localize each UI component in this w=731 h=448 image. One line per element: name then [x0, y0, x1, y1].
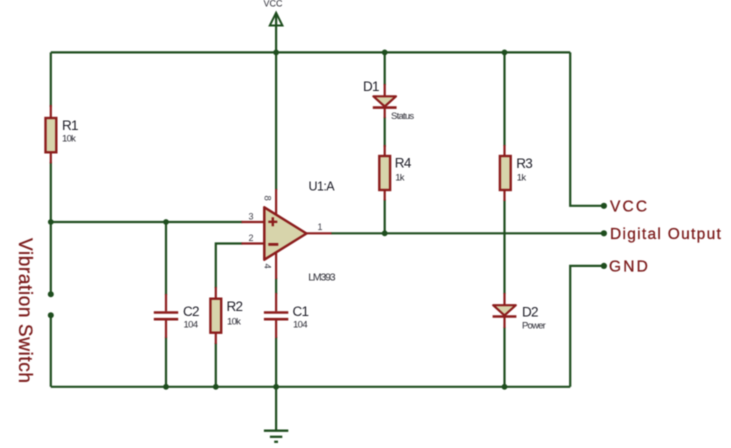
- svg-text:VCC: VCC: [610, 198, 649, 215]
- pin 1 stub: [307, 232, 332, 234]
- svg-text:1k: 1k: [517, 173, 527, 184]
- wire C2 branch vertical: [165, 222, 167, 387]
- wire right vertical to VCC terminal: [570, 52, 604, 205]
- svg-text:R3: R3: [516, 156, 532, 171]
- resistor R3: [500, 145, 511, 201]
- resistor R1: [46, 105, 57, 164]
- node junction pin3 row / C2 branch: [163, 219, 169, 225]
- capacitor C1: [264, 293, 288, 338]
- svg-text:LM393: LM393: [308, 272, 335, 284]
- capacitor C2: [154, 294, 178, 338]
- svg-text:GND: GND: [609, 258, 650, 275]
- node Digital Output terminal dot: [601, 230, 607, 236]
- svg-text:104: 104: [184, 320, 198, 331]
- node vibration switch bottom terminal: [48, 312, 54, 318]
- node junction top rail / VCC stem: [273, 50, 279, 56]
- svg-text:8: 8: [262, 196, 273, 201]
- svg-text:Power: Power: [522, 321, 546, 332]
- diode D2 Power LED: [493, 293, 517, 328]
- svg-text:104: 104: [293, 320, 307, 331]
- svg-text:3: 3: [249, 212, 254, 222]
- ground symbol: [264, 431, 288, 442]
- svg-text:R4: R4: [395, 156, 412, 171]
- svg-text:Digital Output: Digital Output: [610, 226, 722, 243]
- svg-text:R1: R1: [62, 118, 78, 133]
- pin 3 stub: [242, 221, 265, 223]
- resistor R4: [379, 145, 390, 201]
- wire right vertical to GND terminal: [570, 266, 604, 387]
- svg-text:VCC: VCC: [263, 0, 283, 9]
- node VCC terminal dot: [601, 203, 607, 209]
- node junction output row / R4 branch: [382, 230, 388, 236]
- svg-text:D1: D1: [363, 79, 379, 94]
- svg-text:1k: 1k: [395, 173, 405, 184]
- svg-text:4: 4: [262, 264, 273, 269]
- svg-text:C2: C2: [183, 304, 199, 319]
- svg-text:1: 1: [318, 222, 323, 232]
- svg-text:U1:A: U1:A: [309, 180, 336, 194]
- node GND terminal dot: [601, 263, 607, 269]
- wire D1/R4 branch vertical: [384, 52, 386, 233]
- node junction bottom rail / C1 and ground: [273, 384, 279, 390]
- diode D1 Status LED: [373, 84, 397, 118]
- minus symbol: [268, 243, 278, 246]
- wire left vertical upper (top rail to R1): [50, 52, 52, 107]
- wire bottom rail GND net: [51, 386, 570, 388]
- node junction top rail / D1 branch: [382, 50, 388, 56]
- node junction bottom rail / R2: [213, 384, 219, 390]
- wire inverting input row (pin 2) with corner to R2: [216, 244, 243, 387]
- wire op-amp pin 4 to C1 to bottom rail to ground: [275, 278, 277, 431]
- node vibration switch top terminal: [48, 291, 54, 297]
- node junction bottom rail / C2: [163, 384, 169, 390]
- svg-text:R2: R2: [227, 299, 243, 314]
- pin 8 stub: [275, 189, 277, 216]
- svg-text:Status: Status: [391, 111, 414, 122]
- pin 4 stub: [275, 251, 277, 279]
- svg-text:10k: 10k: [227, 317, 241, 328]
- svg-text:D2: D2: [522, 305, 538, 320]
- body triangle: [264, 207, 306, 259]
- svg-text:C1: C1: [293, 304, 309, 319]
- wire R3/D2 branch vertical: [503, 52, 505, 386]
- wire top rail VCC net: [51, 51, 570, 53]
- op-amp U1:A LM393: [242, 189, 332, 279]
- resistor R2: [210, 287, 221, 344]
- pin 2 stub: [242, 242, 265, 244]
- node junction bottom rail / D2: [502, 384, 508, 390]
- node junction top rail / R3 branch: [502, 50, 508, 56]
- wire VCC stem to op-amp pin 8: [275, 14, 277, 190]
- wire non-inverting input row (pin 3): [51, 221, 243, 223]
- svg-text:Vibration Switch: Vibration Switch: [14, 238, 35, 384]
- power symbol VCC arrow: [270, 13, 283, 26]
- wire left vertical lower (switch bottom terminal to bottom rail): [50, 315, 52, 387]
- plus symbol: [268, 217, 277, 226]
- svg-text:10k: 10k: [62, 134, 76, 145]
- wire left vertical mid (R1 to switch top terminal): [50, 162, 52, 294]
- node junction pin3 row / left vertical: [48, 219, 54, 225]
- svg-text:2: 2: [249, 233, 254, 243]
- wire output row (pin 1) to Digital Output terminal: [331, 232, 604, 234]
